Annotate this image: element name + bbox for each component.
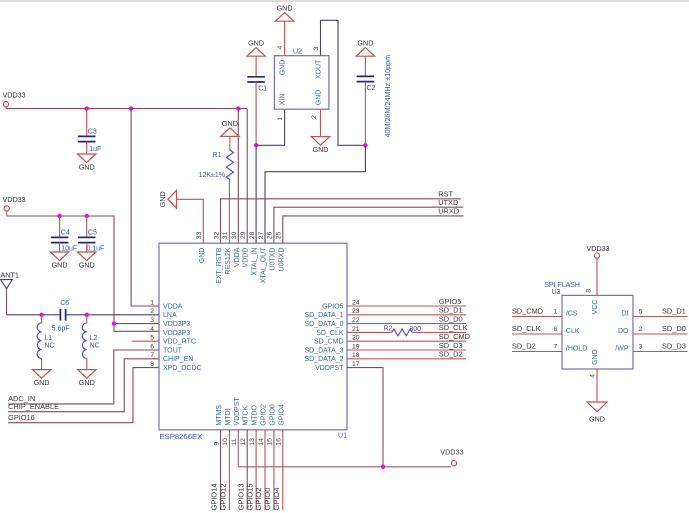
svg-text:1: 1 [150, 299, 154, 306]
svg-text:C2: C2 [367, 85, 376, 92]
svg-text:GPIO4: GPIO4 [278, 404, 285, 426]
svg-text:8: 8 [586, 289, 593, 293]
svg-text:VDD3P3: VDD3P3 [163, 321, 190, 328]
wire+net GPIO12 (bottom) [228, 430, 230, 510]
svg-text:C6: C6 [60, 300, 69, 307]
svg-text:MTDO: MTDO [252, 404, 259, 425]
wire pin26 U0TXD to UTXD [274, 207, 463, 243]
svg-text:SD_D3: SD_D3 [662, 341, 686, 350]
wire U2 pin2 to ground [320, 109, 322, 136]
svg-text:5.6pF: 5.6pF [52, 326, 70, 333]
resistor R1 12K 1% [229, 136, 231, 150]
svg-text:/WP: /WP [615, 346, 629, 353]
wire pin1 VDDA drop [131, 109, 159, 306]
svg-text:4: 4 [589, 374, 596, 378]
svg-text:GND: GND [79, 163, 95, 172]
ground above R1 [221, 128, 239, 137]
svg-text:SD_D0: SD_D0 [439, 314, 463, 323]
svg-text:NC: NC [44, 342, 54, 349]
svg-text:GND: GND [248, 39, 264, 48]
IC U3 SPI FLASH box [562, 295, 633, 369]
svg-text:29: 29 [240, 231, 247, 239]
svg-text:C3: C3 [88, 129, 97, 136]
wire VDD33 rail y=216 [7, 216, 159, 331]
svg-text:20: 20 [352, 335, 360, 342]
svg-text:9: 9 [213, 442, 220, 446]
svg-text:GPIO14: GPIO14 [210, 483, 219, 510]
capacitor C3 1uF [86, 109, 88, 137]
wire pin33 GND [177, 199, 204, 243]
svg-text:GND: GND [313, 145, 329, 154]
U3 pin 6 CLK / net SD_CLK [512, 333, 562, 335]
svg-text:ANT1: ANT1 [1, 271, 19, 280]
junction XOUT-C2 [363, 143, 367, 147]
wire+net GPIO5 [347, 305, 466, 307]
svg-text:GND: GND [34, 378, 50, 387]
power flag VDD33 (mid-left rail) [4, 206, 9, 211]
svg-text:SD_DATA_2: SD_DATA_2 [304, 356, 343, 363]
U3 pin 1 /CS / net SD_CMD [512, 316, 562, 318]
power flag VDD33 (top-left rail) [3, 102, 8, 107]
wire pin3 VDD3P3 tap [114, 323, 159, 325]
junction pin3 tap [112, 321, 116, 325]
svg-text:SD_CLK: SD_CLK [512, 324, 541, 333]
svg-text:SD_DATA_0: SD_DATA_0 [304, 321, 343, 328]
svg-text:12K±1%: 12K±1% [199, 172, 225, 179]
power flag VDD33 (bottom-right) [451, 461, 456, 466]
svg-text:GND: GND [79, 261, 95, 270]
svg-text:SD_D3: SD_D3 [439, 341, 463, 350]
svg-text:GPIO13: GPIO13 [236, 483, 245, 510]
svg-text:11: 11 [231, 438, 238, 445]
wire C1 to pin28 XTAL_IN [255, 82, 257, 145]
wire SD_CLK with resistor R2 300 [347, 331, 392, 333]
svg-text:MTCK: MTCK [243, 405, 250, 425]
svg-text:GND: GND [222, 119, 238, 128]
svg-text:U1: U1 [338, 433, 347, 440]
svg-text:GND: GND [52, 261, 68, 270]
ground below U3 [587, 402, 607, 412]
wire pin25 U0RXD to URXD [283, 216, 464, 243]
inductor L2 NC [86, 315, 88, 323]
svg-text:2: 2 [150, 308, 154, 315]
svg-text:L1: L1 [44, 335, 52, 342]
wire VDDPST bottom rail [238, 430, 451, 467]
capacitor C4 10uF [59, 216, 61, 237]
svg-text:24: 24 [352, 299, 360, 306]
inductor L1 NC [41, 315, 43, 323]
svg-text:VDD33: VDD33 [3, 91, 26, 100]
svg-text:3: 3 [313, 47, 320, 51]
svg-text:SD_CLK: SD_CLK [316, 330, 344, 337]
junction XIN-C1 [254, 143, 258, 147]
svg-text:3: 3 [150, 317, 154, 324]
wire+net GPIO0 (bottom) [273, 430, 275, 510]
svg-text:SD_DATA_3: SD_DATA_3 [304, 347, 343, 354]
ground below C3 [78, 154, 96, 163]
svg-text:U3: U3 [552, 289, 561, 296]
svg-text:6: 6 [554, 326, 558, 333]
wire VDD33 to U3 VCC pin8 [596, 258, 598, 295]
svg-text:27: 27 [258, 231, 265, 239]
wire+net SD_D2 [347, 358, 466, 360]
wire U3 pin4 to ground [596, 369, 598, 402]
svg-text:U0TXD: U0TXD [269, 248, 276, 271]
svg-text:28: 28 [249, 231, 256, 239]
wire U2 pin4 [284, 21, 286, 56]
wire pin17 VDDPST to VDD33 net [347, 368, 383, 467]
svg-text:18: 18 [352, 352, 360, 359]
wire C2 node to pin27 XTAL_OUT [265, 145, 365, 243]
svg-text:DI: DI [622, 311, 629, 318]
svg-text:XIN: XIN [280, 94, 287, 106]
svg-text:GND: GND [357, 39, 373, 48]
resistor R2 300 [392, 329, 413, 336]
svg-text:XPD_DCDC: XPD_DCDC [163, 365, 202, 372]
junction rail2-C5 [85, 214, 89, 218]
svg-text:14: 14 [258, 438, 265, 446]
svg-text:GPIO2: GPIO2 [254, 488, 263, 511]
capacitor C5 0.1uF [86, 216, 88, 237]
svg-text:VDD33: VDD33 [587, 244, 610, 253]
svg-text:22: 22 [352, 317, 360, 324]
svg-text:VDD_RTC: VDD_RTC [163, 339, 196, 346]
svg-text:NC: NC [90, 342, 100, 349]
svg-text:GND: GND [592, 349, 599, 365]
svg-text:23: 23 [352, 308, 360, 315]
svg-text:1uF: 1uF [89, 146, 101, 153]
ground at pin33 (rotated) [168, 190, 177, 208]
ground above C1 [247, 48, 265, 57]
svg-text:/HOLD: /HOLD [566, 346, 587, 353]
junction L1 tap [39, 313, 43, 317]
svg-text:MTDI: MTDI [225, 408, 232, 425]
junction rail1-C3 [85, 106, 89, 110]
ground below L1 [32, 370, 50, 379]
svg-text:SD_D1: SD_D1 [662, 306, 686, 315]
svg-text:300: 300 [409, 326, 421, 333]
svg-text:40M/26M/24MHz ±10ppm: 40M/26M/24MHz ±10ppm [383, 55, 392, 138]
wire+net GPIO15 (bottom) [255, 430, 257, 510]
junction rail2-C4 [57, 214, 61, 218]
svg-text:MTMS: MTMS [216, 405, 223, 426]
svg-text:VDDA: VDDA [234, 247, 241, 267]
wire pin30 VDDA drop [237, 109, 239, 244]
svg-text:GPIO5: GPIO5 [322, 303, 344, 310]
U3 pin 7 /HOLD / net SD_D2 [512, 351, 562, 353]
wire+net GPIO2 (bottom) [264, 430, 266, 510]
svg-text:19: 19 [352, 343, 360, 350]
svg-text:DO: DO [618, 328, 629, 335]
svg-text:33: 33 [196, 231, 203, 239]
svg-text:26: 26 [267, 231, 274, 239]
svg-text:SD_CMD: SD_CMD [314, 339, 344, 346]
wire pin32 EXT_RSTB to RST [221, 199, 462, 243]
wire+net SD_D0 [347, 323, 466, 325]
svg-text:GND: GND [158, 191, 167, 207]
svg-text:RST: RST [438, 189, 453, 198]
svg-text:VDD33: VDD33 [3, 195, 26, 204]
svg-text:GPIO5: GPIO5 [439, 297, 462, 306]
svg-text:GND: GND [280, 60, 287, 76]
svg-text:R2: R2 [384, 325, 393, 332]
svg-text:SD_CMD: SD_CMD [512, 306, 543, 315]
svg-text:VCC: VCC [592, 300, 599, 315]
svg-text:32: 32 [213, 231, 220, 239]
svg-text:7: 7 [554, 344, 558, 351]
svg-text:4: 4 [150, 326, 154, 333]
svg-text:URXD: URXD [438, 207, 459, 216]
svg-text:GPIO4: GPIO4 [272, 488, 281, 511]
svg-text:GND: GND [316, 90, 323, 106]
svg-text:TOUT: TOUT [163, 347, 183, 354]
svg-text:SD_DATA_1: SD_DATA_1 [304, 312, 343, 319]
svg-text:VDDA: VDDA [163, 303, 183, 310]
page top border [0, 0, 689, 2]
capacitor C2 [364, 56, 366, 76]
junction rail1-pin1 drop [129, 106, 133, 110]
svg-text:31: 31 [222, 231, 229, 239]
U3 pin 2 DO / net SD_D0 [633, 333, 688, 335]
svg-text:VDDD: VDDD [243, 248, 250, 268]
svg-text:1: 1 [554, 309, 558, 316]
svg-text:12: 12 [240, 438, 247, 446]
svg-text:LNA: LNA [163, 312, 177, 319]
svg-text:GND: GND [589, 414, 605, 423]
capacitor C6 5.6pF (series) [59, 309, 61, 321]
svg-text:VDD33: VDD33 [440, 448, 463, 457]
svg-text:R1: R1 [213, 152, 222, 159]
svg-text:GND: GND [79, 378, 95, 387]
wire U2 pin1 XIN to C1 node [256, 109, 285, 145]
svg-text:L2: L2 [90, 335, 98, 342]
svg-text:30: 30 [231, 231, 238, 239]
svg-text:VDDPST: VDDPST [234, 396, 241, 425]
svg-text:C1: C1 [258, 85, 267, 92]
svg-text:2: 2 [311, 115, 318, 119]
svg-text:SD_D2: SD_D2 [439, 350, 463, 359]
svg-text:XTAL_OUT: XTAL_OUT [261, 247, 268, 283]
svg-text:6: 6 [150, 343, 154, 350]
svg-text:8: 8 [150, 361, 154, 368]
svg-text:GPIO0: GPIO0 [263, 488, 272, 511]
junction rail1-pin30 drop [236, 106, 240, 110]
U3 pin 5 DI / net SD_D1 [633, 316, 688, 318]
svg-text:SD_CLK: SD_CLK [439, 323, 468, 332]
svg-text:15: 15 [267, 438, 274, 446]
svg-text:U2: U2 [293, 49, 302, 56]
svg-text:GPIO16: GPIO16 [8, 413, 35, 422]
svg-text:4: 4 [277, 46, 284, 50]
IC U1 ESP8266EX box [159, 243, 347, 430]
svg-text:10: 10 [222, 438, 229, 446]
U3 pin 3 /WP / net SD_D3 [633, 351, 688, 353]
svg-text:21: 21 [352, 326, 360, 333]
wire LNA net (antenna to pin2) [7, 314, 61, 316]
svg-text:VDD3P3: VDD3P3 [163, 330, 190, 337]
capacitor C1 [255, 56, 257, 77]
svg-text:GND: GND [199, 248, 206, 264]
svg-text:/CS: /CS [566, 311, 578, 318]
svg-text:RES12K: RES12K [225, 247, 232, 274]
svg-text:17: 17 [352, 361, 360, 368]
svg-text:GPIO2: GPIO2 [261, 404, 268, 426]
svg-text:13: 13 [249, 438, 256, 446]
wire U2 pin3 XOUT loop [321, 20, 366, 145]
svg-text:SPI FLASH: SPI FLASH [544, 282, 580, 289]
svg-text:2: 2 [639, 326, 643, 333]
wire+net SD_CMD [347, 340, 466, 342]
power flag VDD33 (above U3) [594, 253, 599, 258]
ground above U2 pin4 [275, 13, 293, 22]
svg-text:C5: C5 [88, 230, 97, 237]
crystal U2 box [274, 56, 329, 109]
svg-text:SD_D2: SD_D2 [512, 341, 536, 350]
svg-text:CLK: CLK [566, 328, 580, 335]
svg-text:VDDPST: VDDPST [315, 365, 344, 372]
svg-text:SD_D0: SD_D0 [662, 324, 686, 333]
junction L2 tap [85, 313, 89, 317]
svg-text:CHIP_ENABLE: CHIP_ENABLE [8, 402, 59, 411]
svg-text:7: 7 [150, 352, 154, 359]
ground below U2 pin2 [311, 137, 329, 146]
svg-text:GPIO12: GPIO12 [219, 483, 228, 510]
svg-text:EXT_RSTB: EXT_RSTB [216, 247, 223, 284]
svg-text:XOUT: XOUT [316, 59, 323, 79]
svg-text:CHIP_EN: CHIP_EN [163, 356, 193, 363]
svg-text:GPIO15: GPIO15 [245, 483, 254, 510]
svg-text:XTAL_IN: XTAL_IN [252, 248, 259, 276]
svg-text:SD_CMD: SD_CMD [439, 332, 470, 341]
ground below L2 [78, 370, 96, 379]
wire+net GPIO4 (bottom) [282, 430, 284, 510]
wire pin29 VDDD drop [246, 109, 248, 244]
wire VDD_RTC stub (NC) [132, 340, 159, 342]
wire+net SD_D3 [347, 349, 466, 351]
svg-text:25: 25 [276, 231, 283, 239]
svg-text:5: 5 [639, 309, 643, 316]
wire+net SD_D1 [347, 314, 466, 316]
ground below C4 [50, 252, 68, 261]
svg-text:1: 1 [277, 117, 284, 121]
svg-text:16: 16 [276, 438, 283, 446]
wire+net GPIO14 (bottom) [220, 430, 222, 510]
ground above C2 [356, 48, 374, 57]
svg-text:C4: C4 [61, 230, 70, 237]
svg-text:U0RXD: U0RXD [278, 248, 285, 272]
svg-text:GND: GND [277, 4, 293, 13]
junction VDDPST rail [381, 465, 385, 469]
wire+net GPIO13 (bottom) [246, 430, 248, 510]
ground below C5 [78, 252, 96, 261]
wire VDD33 rail y=108.6 [6, 108, 247, 110]
svg-text:5: 5 [150, 335, 154, 342]
svg-text:GPIO0: GPIO0 [269, 404, 276, 426]
wire R1 to pin31 RES12K [228, 180, 230, 244]
svg-text:3: 3 [639, 344, 643, 351]
svg-text:ESP8266EX: ESP8266EX [160, 432, 203, 441]
svg-text:SD_D1: SD_D1 [439, 306, 463, 315]
